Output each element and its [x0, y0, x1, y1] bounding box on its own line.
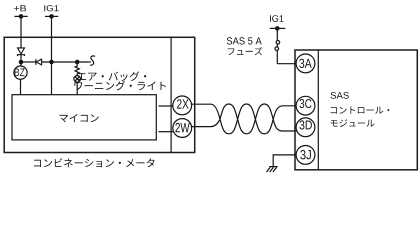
power terminal IG1 (meter): [44, 5, 58, 19]
label SAS: [331, 92, 349, 99]
SAS connector strip line: [317, 50, 319, 170]
wire +B vertical: [20, 16, 22, 48]
label SAS 5 A: [227, 37, 262, 44]
wire diode to node: [20, 55, 22, 66]
wire lamp bus horizontal: [21, 61, 36, 63]
connector stub squiggle (to other circuit): [90, 56, 95, 65]
SAS control module box: [295, 50, 417, 170]
wire microcomputer to 2X: [159, 105, 174, 107]
air bag warning light lamp: [74, 76, 81, 83]
power terminal +B: [14, 5, 28, 19]
resistor (warning light series): [75, 62, 79, 76]
connector 2X: [173, 96, 192, 115]
junction node warning light branch: [75, 60, 80, 65]
wire BZ to microcomputer: [20, 79, 22, 95]
diode D2 on lamp bus: [36, 59, 42, 65]
connector 3A: [296, 54, 315, 73]
ground: [267, 167, 278, 172]
connector 2W: [173, 119, 192, 138]
wire IG1 vertical to microcomputer: [51, 16, 53, 94]
wire lamp to microcomputer: [76, 82, 78, 95]
connector 3D: [296, 118, 315, 137]
label combination meter: [34, 158, 155, 167]
wire fuse to 3A: [277, 63, 296, 65]
label air bag warning light line1: [77, 71, 146, 81]
junction node IG1/lamp bus: [49, 60, 54, 65]
power terminal IG1 (SAS): [270, 15, 286, 31]
combination meter box: [4, 37, 195, 152]
wire microcomputer to 2W: [159, 131, 174, 133]
diode D1 (buzzer feed): [18, 48, 25, 56]
label module: [331, 119, 375, 127]
label fuse: [228, 47, 263, 55]
twisted pair wire B (2W to 3D): [192, 104, 297, 134]
twisted pair wire A (2X to 3C): [192, 104, 296, 134]
microcomputer box: [12, 95, 156, 140]
label microcomputer: [59, 114, 98, 123]
fuse SAS 5A: [275, 41, 280, 51]
wire IG1 to fuse: [276, 28, 278, 63]
meter connector strip line: [170, 37, 172, 152]
buzzer BZ: [14, 66, 27, 79]
connector 3C: [296, 96, 315, 115]
connector 3J: [296, 146, 315, 165]
label air bag warning light line2: [74, 81, 166, 91]
wire 3J to ground: [273, 155, 296, 167]
label control: [331, 106, 390, 113]
junction node +B/lamp bus: [19, 60, 24, 65]
